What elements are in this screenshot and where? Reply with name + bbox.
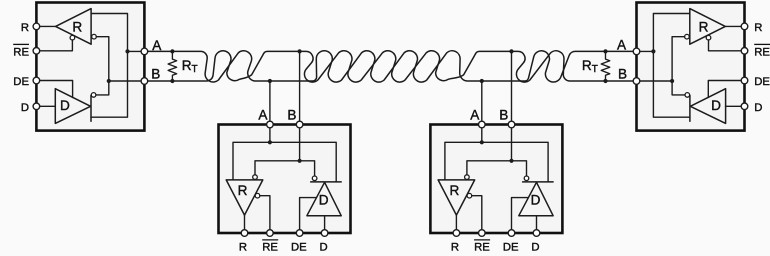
- wire bus line A (strand 1 of twisted pair): [144, 51, 633, 82]
- pin A of U4: [633, 48, 640, 55]
- svg-text:R: R: [699, 19, 709, 34]
- wire stub tap B to transceiver U2: [299, 51, 301, 121]
- wire D pin to driver input: [536, 216, 538, 233]
- internal node A junction: [480, 140, 484, 144]
- wire pin A to internal node A: [481, 128, 483, 143]
- pin R of U3: [453, 230, 460, 237]
- svg-text:DE: DE: [503, 242, 519, 254]
- wire node B to pin B: [637, 80, 673, 82]
- pin DE of U2: [296, 230, 303, 237]
- svg-text:D: D: [60, 98, 70, 113]
- wire receiver inverting input to node B: [672, 37, 685, 81]
- svg-text:R: R: [239, 242, 247, 254]
- svg-text:R: R: [449, 183, 459, 198]
- driver output bar: [311, 181, 342, 183]
- wire driver inverting output to node B: [672, 81, 685, 95]
- wire pin A to internal node A: [269, 128, 271, 143]
- wire RE to receiver enable: [36, 40, 72, 51]
- driver inverting output bubble: [685, 93, 690, 98]
- driver inverting output bubble: [312, 176, 317, 181]
- wire D pin to driver input: [324, 216, 326, 233]
- transceiver U4 box: [637, 3, 745, 131]
- driver output bar: [523, 181, 554, 183]
- wire driver output to node A: [653, 51, 690, 117]
- wire R output: [725, 25, 744, 27]
- svg-text:A: A: [258, 108, 268, 123]
- receiver amp R in U1: [56, 9, 92, 45]
- pin A of U2: [267, 121, 274, 128]
- pin B of U3: [508, 121, 515, 128]
- receiver enable bubble: [706, 35, 711, 40]
- wire D input: [726, 105, 745, 107]
- wire DE pin to driver enable: [512, 198, 529, 233]
- node RT1 top junction: [170, 49, 174, 53]
- pin RE of U4: [741, 48, 748, 55]
- transceiver U3 box: [430, 125, 562, 234]
- svg-text:R: R: [238, 183, 248, 198]
- pin B of U1: [141, 78, 148, 85]
- receiver inverting input bubble: [465, 175, 470, 180]
- node RT2 top junction: [603, 49, 607, 53]
- wire receiver enable to RE pin: [260, 196, 270, 233]
- pin DE of U4: [741, 77, 748, 84]
- node tap B junction for U3: [509, 49, 513, 53]
- receiver inverting input bubble: [685, 34, 690, 39]
- receiver inverting input bubble: [253, 175, 258, 180]
- wire D input: [36, 105, 55, 107]
- wire receiver output to R pin: [455, 215, 457, 233]
- svg-text:R: R: [72, 19, 82, 34]
- wire internal B rail: [467, 161, 527, 176]
- svg-text:D: D: [531, 192, 541, 207]
- pin DE of U3: [508, 230, 515, 237]
- node tap A junction for U2: [268, 79, 272, 83]
- svg-text:R: R: [754, 22, 762, 34]
- pin A of U1: [141, 48, 148, 55]
- pin R of U4: [741, 23, 748, 30]
- wire node A to pin A: [637, 50, 654, 52]
- pin RE of U1: [33, 48, 40, 55]
- driver inverting output bubble: [524, 176, 529, 181]
- svg-text:DE: DE: [754, 76, 770, 88]
- pin DE of U1: [33, 77, 40, 84]
- transceiver U2 box: [219, 125, 351, 234]
- pin B of U2: [296, 121, 303, 128]
- driver output bar: [689, 95, 691, 121]
- wire RE to receiver enable: [709, 40, 745, 51]
- svg-text:B: B: [151, 67, 160, 82]
- wire receiver output to R pin: [244, 215, 246, 233]
- internal node B junction: [509, 159, 513, 163]
- svg-text:B: B: [499, 108, 508, 123]
- resistor RT1: [168, 51, 177, 81]
- node B junction: [107, 79, 111, 83]
- wire internal A rail: [445, 142, 548, 182]
- receiver amp R in U2: [226, 180, 263, 215]
- driver amp D in U4: [690, 89, 725, 124]
- driver output bar: [90, 95, 92, 121]
- wire driver inverting output to node B: [96, 81, 109, 95]
- svg-text:A: A: [617, 38, 627, 53]
- wire internal B rail: [255, 161, 315, 176]
- wire receiver input to node A: [653, 14, 689, 52]
- wire DE pin to driver enable: [300, 198, 317, 233]
- receiver enable bubble: [70, 35, 75, 40]
- svg-text:D: D: [531, 242, 539, 254]
- node tap B junction for U2: [298, 49, 302, 53]
- wire pin B to internal node B: [299, 128, 301, 161]
- svg-text:A: A: [152, 38, 162, 53]
- wire receiver input to node A: [91, 14, 127, 52]
- pin RE of U3: [479, 230, 486, 237]
- receiver enable bubble: [255, 193, 260, 198]
- pin RE of U2: [267, 230, 274, 237]
- node RT2 bottom junction: [603, 79, 607, 83]
- wire driver output to node A: [91, 51, 128, 117]
- receiver inverting input bubble: [92, 34, 97, 39]
- wire internal A rail: [233, 142, 336, 182]
- svg-text:RE: RE: [754, 46, 770, 58]
- resistor RT2: [601, 51, 610, 81]
- wire node A to pin A: [128, 50, 145, 52]
- svg-text:D: D: [319, 192, 329, 207]
- wire node B to pin B: [109, 80, 145, 82]
- node RT1 bottom junction: [170, 79, 174, 83]
- pin B of U4: [633, 78, 640, 85]
- wire stub tap A to transceiver U3: [481, 81, 483, 121]
- svg-text:RE: RE: [474, 242, 490, 254]
- node B junction: [670, 79, 674, 83]
- internal node B junction: [298, 159, 302, 163]
- wire receiver inverting input to node B: [96, 37, 109, 81]
- driver amp D in U3: [519, 182, 553, 215]
- pin D of U1: [33, 103, 40, 110]
- svg-text:D: D: [754, 102, 762, 114]
- svg-text:D: D: [320, 242, 328, 254]
- wire DE to driver enable: [708, 81, 744, 98]
- svg-text:A: A: [470, 108, 480, 123]
- svg-text:B: B: [287, 108, 296, 123]
- pin A of U3: [479, 121, 486, 128]
- wire receiver enable to RE pin: [472, 196, 482, 233]
- receiver enable bubble: [467, 193, 472, 198]
- svg-text:RE: RE: [13, 46, 29, 58]
- node tap A junction for U3: [480, 79, 484, 83]
- svg-text:R: R: [21, 22, 29, 34]
- receiver amp R in U4: [690, 9, 726, 45]
- pin R of U1: [33, 23, 40, 30]
- wire stub tap B to transceiver U3: [511, 51, 513, 121]
- pin D of U4: [741, 103, 748, 110]
- svg-text:RE: RE: [262, 242, 278, 254]
- wire R output: [36, 25, 55, 27]
- transceiver U1 box: [36, 3, 144, 131]
- wire DE to driver enable: [36, 81, 72, 98]
- pin D of U2: [321, 230, 328, 237]
- receiver amp R in U3: [438, 180, 475, 215]
- driver amp D in U1: [55, 89, 90, 124]
- internal node A junction: [268, 140, 272, 144]
- svg-text:DE: DE: [291, 242, 307, 254]
- svg-text:R: R: [451, 242, 459, 254]
- svg-text:DE: DE: [13, 76, 29, 88]
- svg-text:B: B: [618, 67, 627, 82]
- driver amp D in U2: [307, 182, 341, 215]
- pin D of U3: [533, 230, 540, 237]
- svg-text:D: D: [711, 98, 721, 113]
- node A junction: [651, 49, 655, 53]
- pin R of U2: [241, 230, 248, 237]
- svg-text:D: D: [21, 102, 29, 114]
- wire pin B to internal node B: [511, 128, 513, 161]
- node A junction: [125, 49, 129, 53]
- driver inverting output bubble: [91, 93, 96, 98]
- wire bus line B (strand 2 of twisted pair): [144, 51, 633, 82]
- wire stub tap A to transceiver U2: [269, 81, 271, 121]
